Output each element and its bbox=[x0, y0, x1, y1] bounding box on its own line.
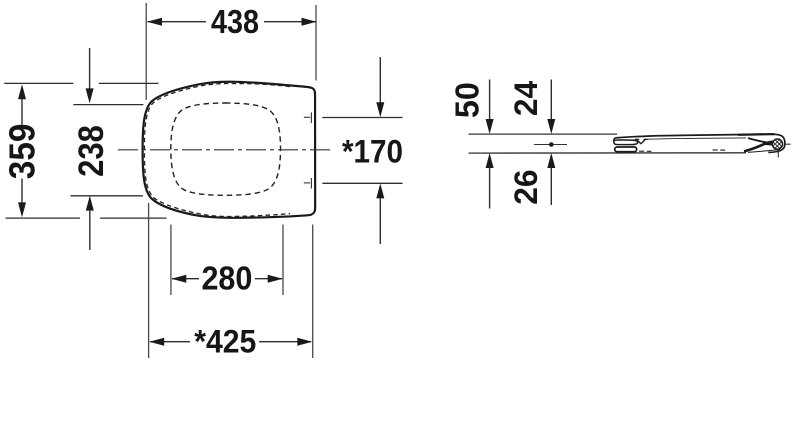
dimension 170 arrow top bbox=[376, 102, 384, 117]
dimension 238 leader top bbox=[89, 48, 91, 90]
lid bottom edge line bbox=[648, 138, 746, 139]
dimension 50 leader top bbox=[489, 80, 491, 120]
hinge circle horizontal centerline tick bbox=[784, 143, 791, 145]
dimension 280 arrow right bbox=[268, 275, 283, 283]
dimension 359 arrow top bbox=[18, 84, 26, 99]
rear bottom edge line bbox=[748, 150, 780, 153]
lid bottom edge dashes bbox=[635, 138, 648, 140]
side profile lid top edge bbox=[615, 134, 766, 138]
dimension 238 arrow bottom bbox=[86, 196, 94, 211]
svg-text:438: 438 bbox=[211, 4, 259, 41]
seat opening (inner dashed contour) bbox=[171, 103, 281, 195]
dimension 280 extension right bbox=[282, 225, 284, 295]
dimension 438 line bbox=[148, 21, 317, 23]
dimension 24 leader top bbox=[550, 80, 552, 120]
front bumper bbox=[615, 147, 637, 152]
dimension 359 arrow bottom bbox=[18, 202, 26, 217]
dimension 170 tick top bbox=[322, 117, 402, 119]
dimension 425 extension right bbox=[312, 225, 314, 359]
svg-text:359: 359 bbox=[2, 124, 43, 180]
dimension 26 leader bottom bbox=[550, 168, 552, 206]
svg-text:24: 24 bbox=[508, 81, 544, 116]
hinge screw circle bbox=[772, 139, 782, 149]
hinge axis dot bbox=[549, 142, 554, 147]
dimension 280 arrow left bbox=[171, 275, 186, 283]
dimension 425 line bbox=[150, 341, 311, 343]
hinge hole V notch bbox=[637, 140, 646, 144]
dimension 50 arrow up bbox=[486, 153, 494, 168]
rear support arm bbox=[744, 142, 775, 152]
rear cap outline bbox=[766, 134, 785, 152]
hinge axis centerline with dot bbox=[534, 144, 567, 146]
dimension 425 arrow right bbox=[297, 338, 312, 346]
dimension 425 arrow left bbox=[149, 338, 164, 346]
side profile nose and ring front section bbox=[614, 138, 638, 145]
svg-text:26: 26 bbox=[508, 169, 544, 204]
top band thickening toward rear cap bbox=[738, 133, 774, 136]
dimension 359 line bbox=[21, 98, 23, 204]
svg-text:280: 280 bbox=[201, 260, 252, 297]
lid bottom edge thickening toward hinge bbox=[748, 138, 773, 143]
svg-text:*170: *170 bbox=[342, 133, 403, 169]
dimension 280 line bbox=[172, 278, 282, 280]
hinge circle vertical centerline bbox=[777, 150, 779, 158]
dimension 170 leader bottom bbox=[379, 198, 381, 244]
side view top reference line bbox=[469, 133, 618, 135]
hinge center cross bottom bbox=[304, 178, 312, 189]
dimension 438 extension line right bbox=[315, 5, 317, 81]
dimension 170 tick bottom bbox=[322, 182, 402, 184]
dimension 170 arrow bottom bbox=[376, 183, 384, 198]
dimension 238 arrow top bbox=[86, 88, 94, 103]
dimension 50 arrow down bbox=[486, 119, 494, 134]
hinge screw knurling bbox=[768, 134, 788, 155]
hinge center cross top bbox=[304, 112, 312, 123]
dimension 26 arrow up bbox=[547, 153, 555, 168]
dimension 24 arrow down bbox=[547, 119, 555, 134]
side view bottom reference line (ceramic) bbox=[469, 152, 747, 154]
dimension 170 leader top bbox=[379, 57, 381, 104]
dimension 238 tick top bbox=[73, 104, 143, 106]
seat ring hidden edge (dashed companion outline) bbox=[144, 84, 290, 217]
dimension 238 tick bottom bbox=[70, 195, 142, 197]
svg-text:238: 238 bbox=[71, 125, 111, 177]
dimension 359 ticks bbox=[4, 83, 166, 218]
dimension 438 arrow right bbox=[302, 18, 317, 26]
svg-text:*425: *425 bbox=[194, 323, 256, 359]
hidden edge dashes under ring bbox=[639, 150, 725, 151]
dimension 50 leader bottom bbox=[489, 168, 491, 209]
dimension 238 leader bottom bbox=[89, 210, 91, 250]
seat outer outline (top view) bbox=[143, 82, 316, 218]
dimension 438 arrow left bbox=[147, 18, 162, 26]
dimension 438 extension line left bbox=[145, 3, 147, 100]
horizontal centerline of top view bbox=[118, 149, 334, 151]
dimension 425 extension left bbox=[148, 203, 150, 358]
dimension 280 extension left bbox=[170, 225, 172, 295]
svg-text:50: 50 bbox=[449, 82, 486, 118]
rear shading wedge bbox=[762, 142, 775, 146]
